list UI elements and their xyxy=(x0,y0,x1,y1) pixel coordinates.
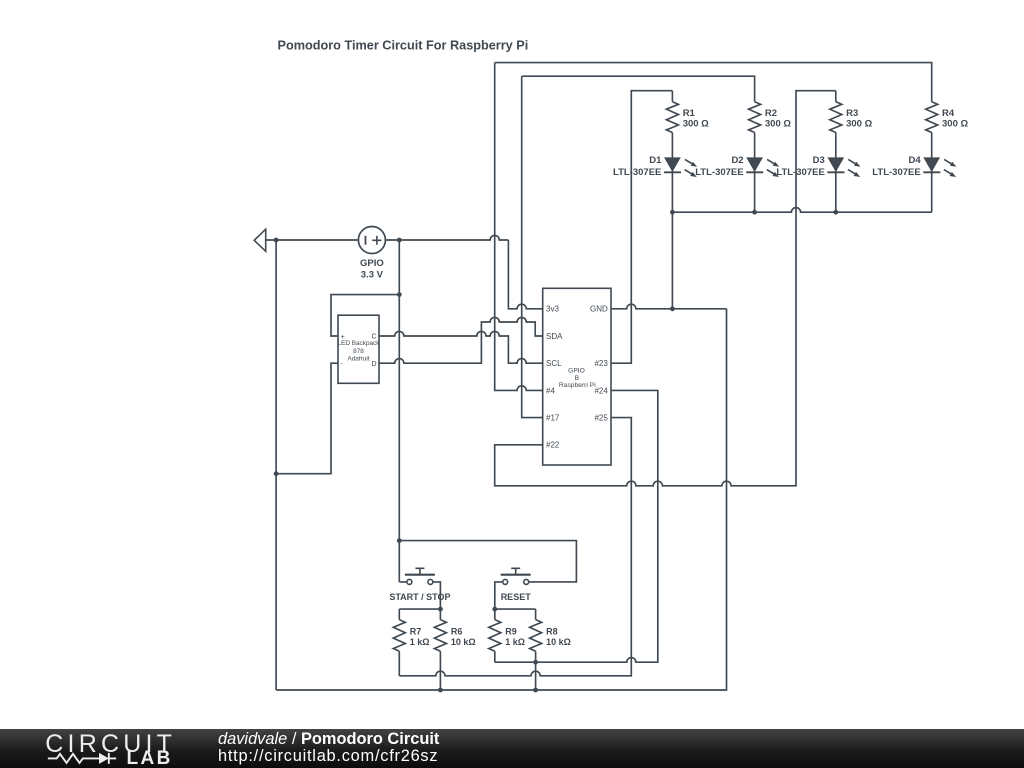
junction dot R9 top xyxy=(492,607,497,612)
svg-text:SCL: SCL xyxy=(546,359,562,368)
svg-text:R6: R6 xyxy=(451,627,463,637)
wire button2 left to node xyxy=(495,582,504,609)
wire source left to flag xyxy=(266,239,359,241)
net flag NF1 (3.3V input arrow) xyxy=(254,229,266,251)
pushbutton SW1 START/STOP xyxy=(405,568,435,584)
voltage source V1 circle xyxy=(358,227,385,254)
wire pin #25 to H2 xyxy=(399,418,631,676)
svg-text:Adafruit: Adafruit xyxy=(347,356,369,363)
logo resistor zigzag xyxy=(48,754,99,763)
LED D1 light arrow 1 xyxy=(685,159,697,166)
resistor R1 zigzag xyxy=(666,102,678,133)
wire R9 R8 top link xyxy=(495,608,536,610)
svg-text:3v3: 3v3 xyxy=(546,305,559,314)
junction dot minus to rail xyxy=(274,471,279,476)
junction dot H1 R8 xyxy=(533,660,538,665)
wire source right to 3v3 corner xyxy=(385,235,508,240)
wire second bus to R2 xyxy=(522,76,755,212)
svg-text:300 Ω: 300 Ω xyxy=(942,118,968,129)
svg-text:R2: R2 xyxy=(765,108,777,119)
LED D1 triangle xyxy=(665,158,680,171)
svg-text:1 kΩ: 1 kΩ xyxy=(505,637,525,647)
wire R1 feed from pin #23 xyxy=(611,91,672,364)
wire GND pin to ground column xyxy=(611,304,727,309)
svg-text:GND: GND xyxy=(590,305,608,314)
resistor R8 zigzag xyxy=(530,620,542,652)
wire button supply bus xyxy=(399,541,576,582)
svg-text:R7: R7 xyxy=(410,627,422,637)
voltage source V1 plus sign xyxy=(372,236,381,245)
resistor R3 zigzag xyxy=(830,102,842,133)
svg-text:R8: R8 xyxy=(546,627,558,637)
wire C column top to pin #17 xyxy=(522,76,543,417)
svg-text:START / STOP: START / STOP xyxy=(389,592,450,602)
svg-text:LTL-307EE: LTL-307EE xyxy=(872,167,920,178)
wire backpack D to SDA xyxy=(379,317,543,363)
svg-text:300 Ω: 300 Ω xyxy=(765,118,791,129)
wire backpack minus pin to left rail xyxy=(276,363,338,474)
junction dot bus D1 xyxy=(670,210,675,215)
svg-text:D3: D3 xyxy=(813,155,825,166)
junction dot R8 rail xyxy=(533,688,538,693)
svg-text:R9: R9 xyxy=(505,627,517,637)
footer line 1: author / title xyxy=(218,730,439,749)
resistor R9 zigzag xyxy=(489,620,501,652)
voltage source V1 minus plate xyxy=(365,236,367,245)
junction dot bus D2 xyxy=(752,210,757,215)
LED D4 light arrow 2 xyxy=(944,170,956,177)
svg-text:LTL-307EE: LTL-307EE xyxy=(613,167,661,178)
wire to backpack plus pin xyxy=(331,295,399,336)
junction dot R6 top xyxy=(438,607,443,612)
logo diode xyxy=(99,753,109,764)
LED D3 light arrow 2 xyxy=(848,170,860,177)
footer bar xyxy=(0,729,1024,768)
svg-text:B: B xyxy=(575,375,580,382)
svg-text:LTL-307EE: LTL-307EE xyxy=(776,167,824,178)
resistor R7 zigzag xyxy=(393,620,405,652)
svg-text:LAB: LAB xyxy=(127,748,173,768)
svg-text:#24: #24 xyxy=(594,386,608,395)
LED D2 light arrow 1 xyxy=(767,159,779,166)
wire LED cathode bus xyxy=(672,208,931,213)
svg-text:D2: D2 xyxy=(731,155,743,166)
IC U2 LED Backpack box xyxy=(338,315,379,383)
wire R9 column xyxy=(494,609,496,662)
IC U1 Raspberry Pi GPIO box xyxy=(543,288,611,465)
svg-text:1 kΩ: 1 kΩ xyxy=(410,637,430,647)
CircuitLab logo xyxy=(0,729,190,768)
wire x399 vertical rail xyxy=(399,240,407,582)
svg-text:10 kΩ: 10 kΩ xyxy=(546,637,571,647)
LED D2 triangle xyxy=(747,158,762,171)
junction dot source right xyxy=(397,238,402,243)
pushbutton SW2 RESET xyxy=(501,568,531,584)
wire backpack C to SCL xyxy=(379,331,543,363)
LED D2 light arrow 2 xyxy=(767,170,779,177)
junction dot node at left rail top xyxy=(274,238,279,243)
wire R7 R6 top link xyxy=(399,608,440,610)
svg-text:R4: R4 xyxy=(942,108,955,119)
svg-text:GPIO: GPIO xyxy=(360,258,384,269)
LED D4 cathode bar xyxy=(923,171,940,173)
svg-text:Raspberri Pi: Raspberri Pi xyxy=(559,382,596,389)
svg-text:LED Backpack: LED Backpack xyxy=(338,340,381,347)
svg-text:RESET: RESET xyxy=(501,592,532,602)
svg-text:3.3 V: 3.3 V xyxy=(361,270,384,281)
wire pin #24 to H1 xyxy=(495,390,658,662)
resistor R2 zigzag xyxy=(749,102,761,133)
svg-text:#23: #23 xyxy=(594,359,608,368)
LED D1 cathode bar xyxy=(664,171,681,173)
svg-text:300 Ω: 300 Ω xyxy=(683,118,709,129)
wire R8 column xyxy=(535,609,537,690)
wire R7 column xyxy=(398,609,400,676)
LED D3 light arrow 1 xyxy=(848,159,860,166)
svg-text:D1: D1 xyxy=(649,155,662,166)
junction dot bus D3 xyxy=(833,210,838,215)
wire R6 column xyxy=(439,609,441,690)
svg-text:Pomodoro Timer Circuit For Ras: Pomodoro Timer Circuit For Raspberry Pi xyxy=(278,39,529,53)
junction dot GND D1 xyxy=(670,306,675,311)
svg-text:878: 878 xyxy=(353,348,364,355)
resistor R6 zigzag xyxy=(434,620,446,652)
wire R3 feed from pin #22 xyxy=(495,91,836,486)
wire left rail xyxy=(275,240,277,690)
wire top bus to R4 xyxy=(495,63,932,213)
svg-text:D4: D4 xyxy=(909,155,922,166)
wire R3 D3 column xyxy=(835,91,837,213)
svg-text:SDA: SDA xyxy=(546,332,563,341)
svg-text:10 kΩ: 10 kΩ xyxy=(451,637,476,647)
wire R1 D1 column xyxy=(671,91,673,309)
LED D4 triangle xyxy=(924,158,939,171)
svg-text:#22: #22 xyxy=(546,441,560,450)
svg-text:D: D xyxy=(372,361,377,368)
svg-text:#4: #4 xyxy=(546,386,555,395)
svg-text:LTL-307EE: LTL-307EE xyxy=(695,167,743,178)
junction dot plus jog xyxy=(397,292,402,297)
wire bottom ground rail xyxy=(276,309,726,690)
LED D4 light arrow 1 xyxy=(944,159,956,166)
LED D1 light arrow 2 xyxy=(685,170,697,177)
LED D3 cathode bar xyxy=(827,171,844,173)
resistor R4 zigzag xyxy=(926,102,938,133)
svg-text:#25: #25 xyxy=(594,414,608,423)
svg-text:R1: R1 xyxy=(683,108,696,119)
svg-text:300 Ω: 300 Ω xyxy=(846,118,872,129)
svg-text:R3: R3 xyxy=(846,108,858,119)
wire B column into 3v3 pin xyxy=(508,240,542,309)
footer line 2: url xyxy=(218,747,438,766)
svg-text:#17: #17 xyxy=(546,414,560,423)
svg-text:GPIO: GPIO xyxy=(568,367,585,374)
junction dot R6 rail xyxy=(438,688,443,693)
LED D3 triangle xyxy=(828,158,843,171)
wire button1 right to node xyxy=(433,582,441,609)
junction dot button bus xyxy=(397,538,402,543)
wire A column top to pin #4 xyxy=(495,63,543,391)
LED D2 cathode bar xyxy=(746,171,763,173)
